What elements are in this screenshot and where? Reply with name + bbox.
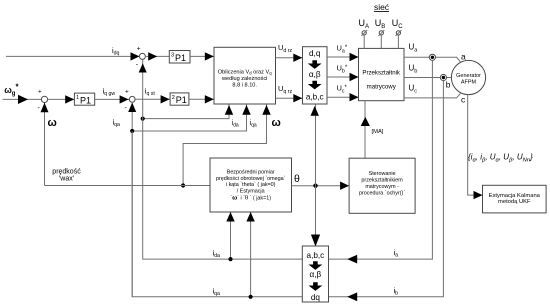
- svg-text:Generator: Generator: [456, 73, 481, 79]
- arrow i_da into S3: [139, 63, 147, 72]
- svg-text:ω: ω: [48, 117, 57, 129]
- arrow i_b into abc-dq block: [347, 292, 357, 301]
- wire theta vertical distribution: [315, 105, 317, 247]
- block dq to abc transform: [303, 47, 328, 104]
- wire i_da branch into Obliczenia: [143, 105, 234, 119]
- wire U_a*: [327, 53, 359, 61]
- terminal phi U_C: [396, 30, 402, 36]
- wire omega feedback into S1: [41, 103, 49, 186]
- svg-text:-: -: [136, 62, 139, 69]
- thick arrow abc->ab in lower transform block: [309, 261, 323, 270]
- svg-text:Uq rz: Uq rz: [278, 84, 292, 95]
- wire i_qa feedback from dq block: [132, 131, 302, 297]
- svg-text:-: -: [38, 105, 41, 112]
- svg-text:α,β: α,β: [310, 270, 322, 279]
- svg-text:idq: idq: [112, 46, 120, 57]
- svg-text:c: c: [461, 95, 466, 105]
- block Sterowanie przeksztaltnikiem: [349, 158, 415, 213]
- svg-text:P1: P1: [175, 53, 186, 63]
- svg-text:Estymacja Kalmana: Estymacja Kalmana: [489, 193, 541, 199]
- svg-text:UB: UB: [375, 18, 386, 30]
- block Przeksztaltnik matrycowy: [359, 48, 405, 100]
- svg-text:iqa: iqa: [250, 120, 257, 129]
- wire P1(1) to S2: [95, 95, 130, 103]
- svg-text:iqa: iqa: [113, 118, 121, 129]
- svg-text:iqa: iqa: [213, 287, 221, 298]
- svg-text:procedura `ochyr()`: procedura `ochyr()`: [359, 191, 405, 197]
- svg-text:P1: P1: [80, 95, 91, 105]
- svg-text:ωg*: ωg*: [4, 82, 19, 97]
- wire omega staircase into Obliczenia: [183, 105, 271, 186]
- svg-text:Ub: Ub: [409, 64, 418, 75]
- wire U_c*: [327, 93, 359, 101]
- wire U_b*: [327, 73, 359, 81]
- sensor current a: [429, 54, 435, 60]
- label predkosc wax: [52, 168, 81, 182]
- svg-text:ia: ia: [394, 248, 399, 259]
- svg-text:UC: UC: [392, 18, 404, 30]
- svg-text:Przekształtnik: Przekształtnik: [362, 70, 401, 77]
- arrow theta up into dq-abc block: [311, 106, 319, 116]
- svg-text:Ua: Ua: [409, 43, 419, 54]
- wire omega_g* input: [3, 95, 42, 104]
- block abc to dq transform: [302, 246, 328, 302]
- wire phase c tap to Kalman: [468, 95, 483, 200]
- block P1 (1): [74, 93, 94, 105]
- wire i_da feedback from dq block: [143, 59, 303, 259]
- generator AFPM: [451, 60, 485, 94]
- svg-text:Bezpośredni pomiar: Bezpośredni pomiar: [227, 170, 275, 176]
- wire i_da riser into Bezposredni: [226, 212, 234, 259]
- wire U_A drop: [363, 35, 365, 48]
- wire U_a phase: [404, 57, 460, 62]
- block P1 (2): [170, 93, 189, 105]
- svg-text:8.8 i 8.10.: 8.8 i 8.10.: [232, 82, 257, 88]
- svg-text:Uc: Uc: [409, 84, 418, 95]
- svg-text:1: 1: [76, 95, 79, 101]
- svg-text:b: b: [446, 80, 451, 90]
- svg-text:iq st: iq st: [145, 87, 156, 98]
- svg-text:+: +: [38, 88, 42, 95]
- svg-text:P1: P1: [176, 95, 187, 105]
- node junction dot i_qa branch: [130, 129, 134, 133]
- svg-text:matrycowym -: matrycowym -: [365, 184, 399, 190]
- wire omega output of Bezposredni (predkosc wax): [45, 185, 211, 187]
- wire i_qa branch into Obliczenia: [132, 105, 251, 132]
- svg-text:iq gw: iq gw: [103, 87, 116, 98]
- wire i_qa feedback into S2: [128, 103, 136, 297]
- svg-text:dq: dq: [311, 293, 321, 302]
- wire S2 to P1(2): [135, 95, 170, 103]
- svg-text:Ud rz: Ud rz: [278, 43, 292, 54]
- svg-text:α,β: α,β: [309, 70, 321, 79]
- wire S1 to P1(1): [48, 95, 75, 103]
- node junction dot omega branch: [181, 183, 185, 187]
- wire U_B drop: [380, 35, 382, 48]
- svg-text:prędkości obrotowej `omega`: prędkości obrotowej `omega`: [216, 176, 286, 182]
- thick arrow ab->abc in transform block: [308, 81, 322, 90]
- wire U_b phase: [404, 77, 451, 79]
- node junction dot i_da branch: [141, 117, 145, 121]
- wire i_qa riser into Bezposredni: [246, 212, 254, 297]
- node sum junction S3: [136, 46, 146, 69]
- wire U_d rz: [276, 54, 303, 62]
- block Obliczenia Vd Vq: [214, 47, 276, 104]
- svg-text:UA: UA: [359, 18, 370, 30]
- svg-text:[MA]: [MA]: [372, 129, 384, 135]
- svg-text:prędkość: prędkość: [52, 168, 81, 175]
- wire S3 output: [145, 52, 169, 60]
- svg-text:a: a: [461, 52, 466, 62]
- svg-text:ib: ib: [394, 286, 399, 297]
- svg-text:Uc*: Uc*: [337, 84, 348, 95]
- svg-text:a,b,c: a,b,c: [306, 93, 324, 102]
- wire MA control into Przeksztaltnik: [361, 101, 370, 159]
- svg-text:matrycowy: matrycowy: [367, 84, 397, 91]
- node sum junction S1: [38, 88, 48, 112]
- arrow theta down into abc-dq block: [311, 235, 320, 247]
- thick arrow dq->ab in transform block: [308, 60, 322, 69]
- svg-text:+: +: [137, 46, 141, 53]
- block P1 (3): [169, 51, 190, 64]
- svg-text:/ Estymacja: / Estymacja: [237, 188, 265, 194]
- svg-text:sieć: sieć: [374, 2, 390, 12]
- svg-text:'wax': 'wax': [59, 176, 74, 183]
- wire U_C drop: [397, 35, 399, 48]
- thick arrow ab->dq in lower transform block: [309, 282, 323, 291]
- wire i_dq reference line: [6, 52, 140, 60]
- terminal phi U_B: [379, 30, 385, 36]
- node junction dot i_qa riser: [249, 295, 253, 299]
- svg-text:przekształtnikiem: przekształtnikiem: [361, 178, 403, 184]
- svg-text:Ua*: Ua*: [337, 44, 348, 55]
- svg-text:θ: θ: [294, 173, 300, 185]
- svg-text:AFPM: AFPM: [461, 80, 477, 86]
- wire i_a tap down from sensor a: [329, 60, 433, 259]
- wire theta output to Sterowanie: [292, 182, 350, 190]
- terminal phi U_A: [361, 30, 367, 36]
- svg-text:Sterowanie: Sterowanie: [369, 171, 396, 177]
- block Estymacja Kalmana: [483, 185, 547, 213]
- block Bezposredni pomiar: [210, 158, 292, 212]
- wire P1(3) to Obliczenia: [190, 52, 214, 60]
- svg-text:3: 3: [171, 53, 174, 59]
- node junction dot i_da riser: [228, 257, 232, 261]
- svg-text:metodą UKF: metodą UKF: [498, 199, 531, 205]
- node sum junction S2: [125, 88, 136, 112]
- svg-text:ida: ida: [213, 249, 221, 260]
- svg-text:d,q: d,q: [309, 49, 321, 58]
- wire P1(2) to Obliczenia: [189, 95, 214, 103]
- wire U_q rz: [276, 94, 303, 102]
- svg-text:według zależności: według zależności: [221, 76, 267, 82]
- node junction dot theta: [313, 184, 317, 188]
- svg-text:{iα, iβ, Uα, Uβ, UNn}: {iα, iβ, Uα, Uβ, UNn}: [468, 153, 533, 164]
- svg-text:i kąta `theta` ( jak=0): i kąta `theta` ( jak=0): [226, 182, 276, 188]
- svg-text:Ub*: Ub*: [337, 64, 348, 75]
- svg-text:Obliczenia Vd oraz Vq: Obliczenia Vd oraz Vq: [218, 69, 272, 75]
- svg-text:ω: ω: [272, 117, 281, 129]
- svg-text:a,b,c: a,b,c: [307, 251, 325, 260]
- wire U_c phase: [404, 93, 460, 98]
- arrow i_a into abc-dq block: [347, 255, 357, 264]
- svg-text:ida: ida: [232, 120, 239, 129]
- svg-text:+: +: [125, 88, 129, 95]
- svg-text:-: -: [125, 105, 128, 112]
- svg-text:`ω` i `θ ` ( jak=1): `ω` i `θ ` ( jak=1): [230, 194, 271, 202]
- wire i_b tap down from sensor b: [329, 81, 444, 297]
- sensor current b: [440, 74, 446, 80]
- svg-text:2: 2: [172, 95, 175, 101]
